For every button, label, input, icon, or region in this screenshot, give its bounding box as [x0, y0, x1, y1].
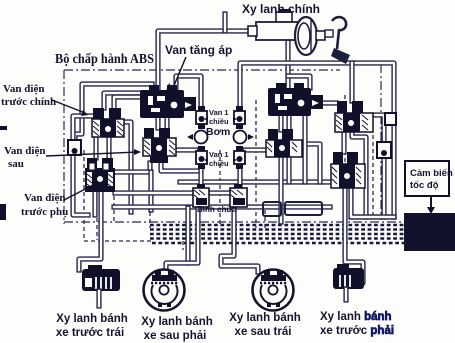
boost valve block E (Van tang ap right) [268, 83, 323, 116]
solenoid valve D (Van dien truoc phu) [85, 158, 115, 192]
pipe left pump column up into boost valve [176, 76, 201, 111]
svg-text:xe sau trái: xe sau trái [235, 326, 292, 338]
solenoid valve H (right front aux) [331, 152, 365, 188]
left outer pipe with check box [73, 116, 92, 215]
solenoid valve F (right front main) [335, 101, 373, 132]
speed sensor label box [405, 161, 453, 196]
pipe from master cylinder left port [158, 31, 252, 96]
rear-left wheel drum [253, 270, 294, 311]
pipes boost valve B down to valve C [158, 118, 167, 128]
svg-text:Van 1: Van 1 [209, 108, 229, 117]
svg-text:Bơm: Bơm [206, 126, 230, 138]
label Van dien sau [4, 145, 141, 170]
pump circles [187, 131, 254, 144]
svg-text:xe trước trái: xe trước trái [56, 327, 124, 339]
label Van dien truoc phu [21, 181, 99, 218]
master cylinder [248, 9, 350, 64]
solenoid valve A (Van dien truoc chinh) [92, 108, 124, 137]
label Van dien truoc chinh [1, 83, 88, 116]
svg-text:chiều: chiều [209, 117, 229, 126]
svg-text:chiều: chiều [209, 159, 229, 168]
svg-text:Bình chứa: Bình chứa [197, 205, 237, 214]
svg-text:xe trước phải: xe trước phải [320, 325, 394, 337]
svg-text:tốc độ: tốc độ [410, 180, 439, 191]
label box Van tang ap [165, 43, 232, 91]
svg-text:Xy lanh bánh: Xy lanh bánh [320, 311, 392, 323]
rear-right wheel drum [144, 270, 185, 311]
pipe right top loop to far right vertical [240, 63, 394, 217]
check valve upper-left [196, 106, 207, 129]
pipe valve D bottom down to front-left wheel [79, 192, 101, 270]
boost valve block B (Van tang ap left) [140, 85, 196, 118]
svg-text:Van điện: Van điện [24, 192, 65, 204]
dashed boundary box of ABS actuator [64, 64, 404, 241]
scan artifacts left edge [0, 126, 7, 130]
pipe valve F top loop [288, 63, 352, 182]
svg-text:Xy lanh bánh: Xy lanh bánh [141, 316, 213, 328]
speed sensor black box [404, 213, 455, 251]
right line check box [377, 113, 396, 158]
reservoir left [193, 184, 209, 207]
svg-text:trước phụ: trước phụ [21, 206, 68, 218]
container outlines right of reservoir [263, 202, 322, 216]
svg-text:Xy lanh bánh: Xy lanh bánh [56, 313, 128, 325]
pipes boost valve E down to valve G [281, 116, 289, 130]
svg-text:Bộ chấp hành ABS: Bộ chấp hành ABS [55, 51, 154, 66]
pipe right elbows to front-right wheel [351, 214, 394, 219]
svg-text:trước chính: trước chính [1, 96, 56, 108]
pipe valve G bottom [245, 116, 363, 283]
reservoir right [230, 184, 247, 207]
solenoid valve C (Van dien sau left) [143, 128, 176, 163]
wire band to ECU [97, 210, 404, 250]
pipe from master cylinder down to right boost valve [285, 42, 290, 95]
svg-text:Van 1: Van 1 [209, 150, 229, 159]
pipes valve A top [75, 84, 152, 140]
long horizontal pipes crossing center [114, 182, 345, 207]
pipe valve A right to valve C [124, 122, 131, 212]
front-left wheel cylinder [82, 265, 120, 306]
pipe valve F right to check and down [351, 115, 394, 217]
left line check box [68, 140, 81, 155]
check valve upper-right [234, 106, 245, 129]
svg-text:Xy lanh bánh: Xy lanh bánh [229, 312, 301, 324]
svg-text:sau: sau [8, 158, 24, 170]
svg-text:Xy lanh chính: Xy lanh chính [242, 2, 320, 16]
check valve lower-right [234, 146, 245, 169]
svg-text:Van điện: Van điện [3, 83, 44, 95]
pipe valve C bottom-left into valve D [96, 137, 199, 210]
front-right wheel cylinder [333, 264, 364, 300]
svg-text:Van tăng áp: Van tăng áp [165, 43, 232, 57]
svg-text:Van điện: Van điện [4, 145, 45, 157]
svg-text:Cảm biến: Cảm biến [410, 168, 453, 179]
check valve lower-left [196, 146, 207, 169]
svg-text:xe sau phải: xe sau phải [144, 330, 207, 342]
pipe stub up near top edge [222, 14, 227, 31]
pipes down to rear drums [166, 208, 258, 272]
pipes pump columns to reservoirs [201, 165, 240, 188]
arrow sensor label to sensor [427, 196, 435, 214]
pipes valve F down to valve H [341, 132, 346, 152]
solenoid valve G (right rear) [266, 129, 302, 157]
